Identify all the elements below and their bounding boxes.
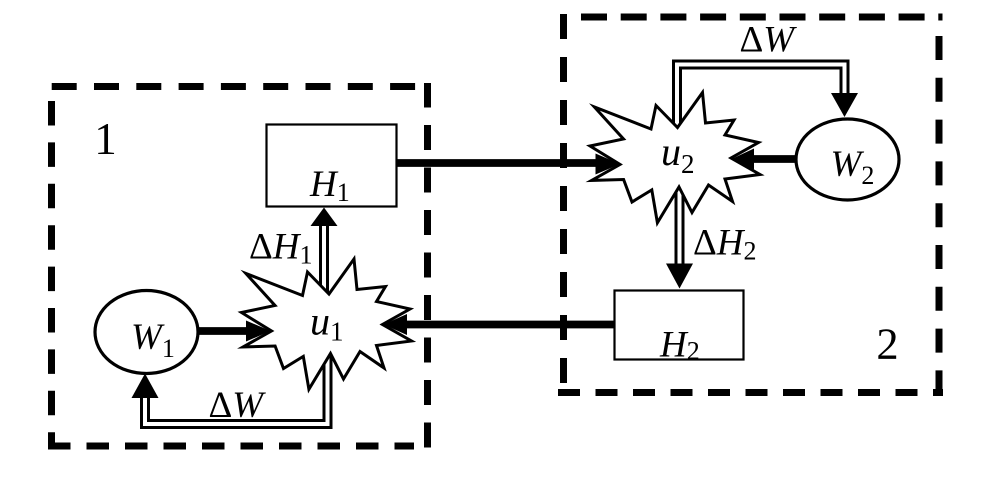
- svg-text:1: 1: [94, 114, 117, 164]
- wire: thick arrow H2 to u1: [384, 314, 615, 335]
- system boundary box 2 (dashed): [558, 14, 943, 396]
- node u2: utility starburst 2: [590, 93, 760, 223]
- arrowhead of dW into W1 bottom: [132, 374, 159, 399]
- arrowhead of dW into W2 top: [831, 93, 858, 117]
- node H1: box: [267, 125, 397, 207]
- node u1: utility starburst 1: [242, 259, 412, 389]
- wire: double-line dW feedback loop (u2 top to W2): [674, 61, 849, 128]
- arrowhead of dH1 into H1 bottom: [311, 208, 338, 227]
- wire: thick arrow W1 to u1: [198, 321, 271, 342]
- wire: thick arrow H1 to u2: [397, 154, 620, 175]
- system boundary box 1 (dashed): [48, 83, 431, 448]
- wire: double-line shaft of dH1 feedback (u1 to H1): [321, 225, 328, 293]
- svg-text:ΔH1: ΔH1: [249, 227, 313, 270]
- node W2: ellipse: [796, 119, 899, 200]
- svg-text:2: 2: [876, 319, 898, 369]
- node W1: ellipse: [95, 291, 198, 374]
- wire: double-line shaft of dH2 feedback (u2 to H2): [676, 186, 683, 265]
- svg-text:ΔW: ΔW: [740, 20, 798, 61]
- wire: thick arrow W2 to u2: [732, 149, 796, 170]
- svg-text:ΔH2: ΔH2: [693, 223, 757, 266]
- svg-text:ΔW: ΔW: [209, 385, 267, 426]
- arrowhead of dH2 into H2 top: [666, 264, 693, 289]
- wire: double-line dW feedback loop (u1 bottom to W1): [142, 352, 332, 428]
- node H2: box: [615, 291, 744, 360]
